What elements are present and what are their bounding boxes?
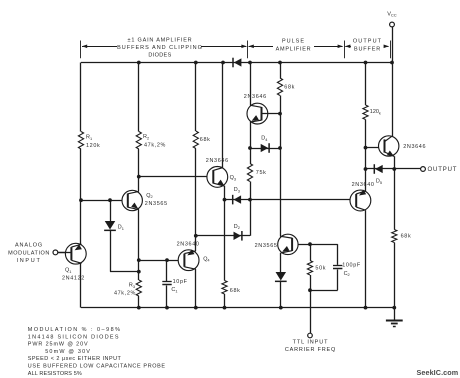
svg-text:120k: 120k [86, 143, 100, 149]
svg-text:2N3565: 2N3565 [145, 201, 168, 207]
svg-text:R3: R3 [129, 283, 135, 289]
svg-text:50mW @ 30V: 50mW @ 30V [45, 349, 91, 355]
svg-text:SeekIC.com: SeekIC.com [417, 368, 459, 377]
svg-text:2N4122: 2N4122 [62, 276, 85, 282]
svg-text:ANALOG: ANALOG [15, 243, 43, 249]
svg-text:MODULATION % : 0–98%: MODULATION % : 0–98% [28, 327, 122, 333]
svg-text:2N3640: 2N3640 [177, 241, 200, 247]
svg-text:100pF: 100pF [342, 263, 361, 269]
svg-text:C2: C2 [344, 271, 350, 277]
svg-text:MODULATION: MODULATION [8, 250, 50, 256]
svg-text:VCC: VCC [387, 11, 397, 17]
svg-text:OUTPUT: OUTPUT [428, 167, 458, 173]
svg-text:47k,2%: 47k,2% [114, 291, 136, 297]
svg-text:50k: 50k [315, 266, 326, 272]
svg-text:SPEED < 2 μsec EITHER INPUT: SPEED < 2 μsec EITHER INPUT [28, 356, 122, 362]
svg-text:AMPLIFIER: AMPLIFIER [276, 46, 312, 52]
svg-text:PWR 25mW @ 20V: PWR 25mW @ 20V [28, 342, 89, 348]
svg-text:2N3646: 2N3646 [403, 144, 426, 150]
svg-text:TTL INPUT: TTL INPUT [293, 340, 329, 346]
svg-text:D2: D2 [234, 224, 240, 230]
svg-text:BUFFER: BUFFER [354, 46, 381, 52]
svg-text:1N4148 SILICON DIODES: 1N4148 SILICON DIODES [28, 334, 120, 340]
svg-text:R2: R2 [143, 134, 149, 140]
svg-text:68k: 68k [230, 288, 241, 294]
svg-text:Q4: Q4 [203, 256, 210, 262]
svg-text:CARRIER FREQ: CARRIER FREQ [285, 347, 336, 353]
svg-text:D5: D5 [376, 178, 382, 184]
svg-text:120k: 120k [370, 109, 381, 115]
svg-text:75k: 75k [256, 170, 267, 176]
svg-text:DIODES: DIODES [148, 52, 171, 58]
svg-text:D1: D1 [118, 225, 124, 231]
svg-text:68k: 68k [401, 233, 412, 239]
svg-text:68k: 68k [200, 137, 211, 143]
svg-text:D4: D4 [261, 136, 268, 142]
svg-text:Q3: Q3 [230, 175, 236, 181]
svg-text:PULSE: PULSE [282, 38, 305, 44]
svg-text:2N3565: 2N3565 [255, 243, 278, 249]
svg-text:68k: 68k [284, 84, 295, 90]
svg-text:Q1: Q1 [65, 268, 71, 274]
svg-text:INPUT: INPUT [17, 258, 42, 264]
svg-text:2N3646: 2N3646 [206, 158, 229, 164]
svg-text:10pF: 10pF [173, 279, 188, 285]
svg-text:±1 GAIN AMPLIFIER: ±1 GAIN AMPLIFIER [128, 37, 193, 43]
svg-text:D3: D3 [234, 187, 240, 193]
svg-text:R1: R1 [86, 134, 92, 140]
svg-text:47k,2%: 47k,2% [144, 142, 166, 148]
svg-text:C1: C1 [171, 287, 177, 293]
svg-text:USE BUFFERED LOW CAPACITANCE P: USE BUFFERED LOW CAPACITANCE PROBE [28, 364, 166, 370]
svg-text:BUFFERS AND CLIPPING: BUFFERS AND CLIPPING [117, 45, 203, 51]
svg-text:2N3640: 2N3640 [352, 182, 375, 188]
svg-text:Q2: Q2 [146, 193, 152, 199]
svg-text:ALL RESISTORS 5%: ALL RESISTORS 5% [28, 371, 82, 377]
svg-text:OUTPUT: OUTPUT [353, 38, 382, 44]
svg-text:2N3646: 2N3646 [244, 94, 267, 100]
